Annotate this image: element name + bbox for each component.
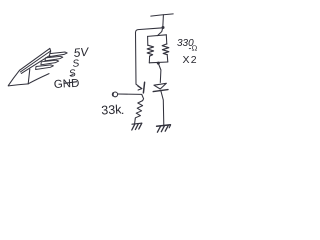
svg-text:X2: X2 <box>183 54 198 66</box>
svg-text:.: . <box>121 103 124 117</box>
svg-text:Ω: Ω <box>192 44 198 53</box>
svg-text:33k: 33k <box>101 102 123 117</box>
svg-text:GND: GND <box>54 78 80 91</box>
